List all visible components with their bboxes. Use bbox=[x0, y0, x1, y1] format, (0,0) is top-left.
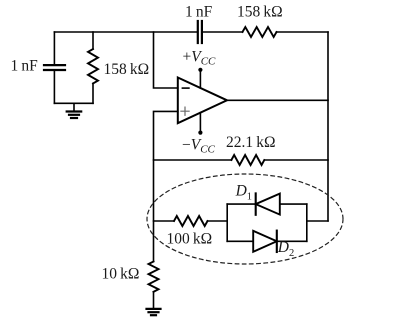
svg-text:1 nF: 1 nF bbox=[11, 58, 39, 75]
diode D2 (points right) bbox=[253, 231, 277, 252]
power -VCC stem and dot bbox=[198, 113, 202, 135]
resistor R4 100 kOhm bbox=[174, 216, 208, 226]
wire diode box right vertical bbox=[306, 204, 308, 241]
ground G2 bbox=[147, 309, 161, 315]
svg-text:22.1 kΩ: 22.1 kΩ bbox=[226, 134, 276, 151]
wire diode box left vertical bbox=[226, 204, 228, 241]
wire R5 to ground bbox=[153, 292, 155, 309]
wire inverting input branch bbox=[154, 32, 178, 88]
op-amp U1 bbox=[178, 78, 227, 124]
power +VCC stem and dot bbox=[198, 68, 202, 88]
svg-text:10 kΩ: 10 kΩ bbox=[102, 266, 140, 283]
wire bottom of RC tank bbox=[54, 102, 93, 104]
wire noninverting input branch bbox=[154, 111, 178, 261]
wire op-amp output to right bus bbox=[227, 99, 328, 101]
wire top rail left segment (node A to C2) bbox=[54, 31, 197, 33]
wire right bus bbox=[327, 32, 329, 221]
resistor R2 158 kOhm (top series) bbox=[243, 27, 277, 37]
dashed ellipse limiter boundary bbox=[147, 174, 343, 264]
svg-text:158 kΩ: 158 kΩ bbox=[104, 61, 150, 78]
svg-text:158 kΩ: 158 kΩ bbox=[237, 4, 283, 21]
wire diode box top branch bbox=[227, 203, 307, 205]
wire diode box bottom branch bbox=[227, 240, 307, 242]
resistor R5 10 kOhm (vertical) bbox=[149, 262, 159, 292]
wire R4 to diode box bbox=[208, 220, 228, 222]
resistor R3 22.1 kOhm bbox=[231, 155, 264, 165]
wire top rail middle segment (C2 to R2) bbox=[203, 31, 243, 33]
svg-text:1 nF: 1 nF bbox=[185, 4, 213, 21]
wire limiter row left segment bbox=[154, 220, 175, 222]
ground G1 bbox=[67, 103, 82, 118]
resistor R1 158 kOhm (left, vertical) bbox=[88, 32, 98, 103]
wire feedback row left segment bbox=[154, 159, 232, 161]
svg-text:100 kΩ: 100 kΩ bbox=[167, 231, 213, 248]
capacitor C2 1 nF (top series) bbox=[198, 21, 202, 43]
diode D1 (points left) bbox=[256, 193, 280, 214]
wire feedback row right segment bbox=[264, 159, 328, 161]
wire diode box to right bus bbox=[307, 220, 328, 222]
capacitor C1 1 nF (left, vertical branch) bbox=[44, 32, 65, 103]
wire top rail right segment (R2 to right bus) bbox=[277, 31, 329, 33]
